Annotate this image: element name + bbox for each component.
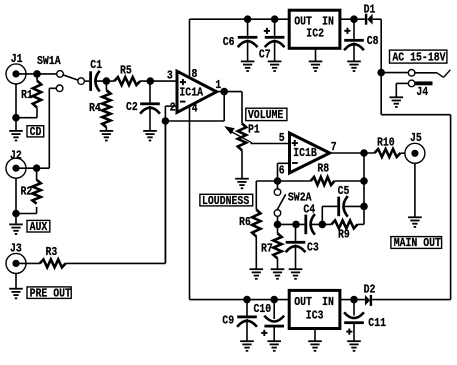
- wire pin2 stub and drop to pre-out: [165, 106, 177, 263]
- svg-text:MAIN OUT: MAIN OUT: [394, 237, 442, 250]
- label SW2A: [288, 192, 312, 205]
- regulator IC2: [289, 10, 340, 48]
- svg-text:AC 15-18V: AC 15-18V: [392, 52, 445, 65]
- label PRE OUT: [27, 287, 71, 301]
- svg-text:C3: C3: [307, 242, 319, 255]
- svg-text:R4: R4: [89, 102, 101, 115]
- pin 1 label: [215, 79, 221, 92]
- svg-text:R5: R5: [120, 65, 132, 78]
- label J4: [416, 86, 428, 99]
- connector J2: [6, 150, 26, 179]
- svg-text:D2: D2: [364, 284, 376, 297]
- wire to P1 top: [241, 92, 243, 124]
- label SW1A: [37, 55, 61, 68]
- wire C1 to R5: [97, 80, 115, 82]
- wire J2 to R2: [16, 167, 37, 169]
- wire to R6: [256, 181, 277, 210]
- switch SW2A bottom contact: [274, 210, 281, 217]
- resistor R4: [89, 81, 111, 127]
- svg-text:IN: IN: [322, 16, 334, 29]
- svg-text:LOUDNESS: LOUDNESS: [202, 195, 250, 208]
- ground under R6: [250, 237, 264, 279]
- resistor R7: [261, 224, 282, 258]
- svg-text:J4: J4: [416, 86, 428, 99]
- ground under R7: [271, 258, 285, 278]
- J4 switch lever: [415, 70, 451, 78]
- wire J1 to SW1A: [16, 73, 57, 75]
- resistor R10: [375, 137, 401, 157]
- wire IC1B pin6: [278, 163, 290, 181]
- svg-text:IC1B: IC1B: [293, 147, 317, 160]
- wire +rail: [190, 18, 290, 20]
- node C8 junction: [350, 15, 358, 23]
- svg-text:IC2: IC2: [306, 28, 324, 41]
- ground under P1: [235, 150, 249, 188]
- ground under C8: [347, 43, 361, 72]
- svg-text:8: 8: [192, 68, 198, 81]
- ground under J4: [390, 97, 404, 107]
- wire R5 to IC1A pin3: [140, 80, 177, 82]
- label AC 15-18V: [390, 50, 447, 65]
- capacitor C2: [126, 81, 160, 114]
- wire R10 to J5: [400, 152, 411, 154]
- switch SW1A throw 2: [56, 85, 63, 92]
- wire IC2 IN to D1: [340, 18, 365, 20]
- capacitor C9: [222, 300, 257, 328]
- ground under J2: [9, 214, 23, 235]
- node J1 ground junction: [12, 114, 20, 122]
- J4 switch contact: [408, 70, 415, 77]
- node IC1A output junction: [220, 88, 228, 96]
- switch SW1A lever: [63, 75, 78, 80]
- capacitor C8: [344, 19, 378, 50]
- svg-text:R3: R3: [46, 246, 58, 259]
- resistor R2: [16, 168, 41, 213]
- capacitor C1: [89, 59, 102, 91]
- wire R3 to pin2 node: [66, 121, 166, 263]
- ground under C2: [143, 106, 157, 141]
- svg-text:VOLUME: VOLUME: [248, 109, 284, 122]
- node J1/R1 junction: [33, 70, 41, 78]
- switch SW2A top contact: [274, 189, 281, 196]
- svg-text:SW1A: SW1A: [37, 55, 61, 68]
- ground under C6: [241, 40, 255, 72]
- svg-text:C2: C2: [126, 101, 138, 114]
- svg-text:CD: CD: [30, 126, 42, 139]
- label CD: [27, 126, 44, 139]
- svg-text:3: 3: [167, 70, 173, 83]
- capacitor C6: [223, 19, 258, 49]
- svg-text:R2: R2: [21, 186, 33, 199]
- svg-text:PRE OUT: PRE OUT: [30, 288, 72, 301]
- resistor R8: [278, 163, 365, 185]
- svg-text:AUX: AUX: [30, 221, 48, 234]
- svg-text:R6: R6: [239, 216, 251, 229]
- op-amp IC1B: [290, 133, 330, 173]
- svg-text:IC1A: IC1A: [179, 87, 203, 100]
- resistor R3: [40, 246, 66, 267]
- ground under C3: [289, 245, 303, 279]
- node C10 junction: [270, 296, 278, 304]
- wire SW2A to node: [277, 216, 279, 224]
- node C3 junction: [292, 221, 300, 229]
- diode D2: [364, 284, 376, 306]
- node J2 junction: [33, 164, 41, 172]
- ground under C7: [268, 40, 282, 72]
- svg-text:2: 2: [170, 102, 176, 115]
- wire to J4 switch contact: [381, 72, 408, 74]
- svg-text:C11: C11: [368, 317, 386, 330]
- ground under J3: [9, 273, 23, 298]
- svg-text:4: 4: [192, 103, 198, 116]
- svg-text:C9: C9: [222, 315, 234, 328]
- wire SW1A pole to C1: [84, 80, 89, 82]
- node output junction: [360, 149, 368, 157]
- node pin2 junction: [162, 117, 170, 125]
- svg-text:6: 6: [279, 165, 285, 178]
- switch SW1A pole: [78, 78, 85, 85]
- switch SW2A lever: [277, 194, 286, 210]
- P1 wiper arrow: [224, 126, 252, 143]
- svg-text:IC3: IC3: [306, 310, 324, 323]
- pin 5 label: [279, 132, 285, 145]
- diode D1: [364, 4, 376, 25]
- ground under J1: [9, 118, 23, 141]
- wire P1 wiper to IC1B pin5: [251, 143, 292, 145]
- ground under C11: [347, 324, 361, 351]
- capacitor C10: [254, 300, 285, 336]
- ground under IC2: [309, 48, 323, 71]
- wire IC1A pin8 to +rail: [189, 19, 191, 77]
- svg-text:R8: R8: [317, 163, 329, 176]
- capacitor C7: [259, 19, 285, 61]
- pin 6 label: [279, 165, 285, 178]
- pin 2 label: [170, 102, 176, 115]
- wire IC3 IN to D2: [340, 299, 365, 301]
- wire D2 to AC bus: [372, 299, 451, 301]
- wire D1 to J4 node: [373, 19, 382, 72]
- wire IC1A output: [217, 91, 242, 93]
- node R5/C2 junction: [147, 77, 155, 85]
- wire right feedback bus: [363, 153, 365, 224]
- svg-text:IN: IN: [322, 296, 334, 309]
- wire IC1B output: [330, 152, 375, 154]
- svg-text:C7: C7: [259, 49, 271, 62]
- capacitor C4: [303, 204, 315, 235]
- node feedback junction: [274, 177, 282, 185]
- switch SW1A throw 1: [57, 71, 64, 78]
- svg-text:C10: C10: [254, 303, 272, 316]
- potentiometer P1: [238, 123, 260, 150]
- ground under IC3: [308, 329, 322, 351]
- svg-text:C1: C1: [90, 59, 102, 72]
- node C4/C5 junction: [319, 221, 327, 229]
- wire AC to D2: [381, 73, 450, 300]
- wire C4 to R9: [312, 223, 332, 225]
- svg-text:OUT: OUT: [294, 296, 312, 309]
- wire IC1A pin4 to -rail: [189, 105, 191, 300]
- J4 tip pin: [415, 81, 433, 85]
- label LOUDNESS: [200, 194, 253, 208]
- wire to C5: [322, 206, 337, 224]
- label VOLUME: [246, 108, 287, 122]
- connector J1: [6, 53, 26, 84]
- node C11 junction: [350, 296, 358, 304]
- node loudness junction: [274, 221, 282, 229]
- ground under R4: [100, 127, 114, 140]
- wire to SW2A: [277, 181, 279, 189]
- wire -rail: [190, 299, 290, 301]
- pin 7 label: [331, 141, 337, 154]
- svg-text:C6: C6: [223, 36, 235, 49]
- node C7 junction: [271, 15, 279, 23]
- node C9 junction: [243, 296, 251, 304]
- resistor R1: [16, 74, 41, 118]
- wire to C3/C4: [278, 223, 305, 225]
- wire C5 to bus: [345, 205, 364, 207]
- capacitor C11: [344, 300, 386, 335]
- pin 4 label: [192, 103, 198, 116]
- regulator IC3: [289, 290, 340, 328]
- resistor R6: [239, 210, 261, 237]
- node C6 junction: [244, 15, 252, 23]
- svg-text:R7: R7: [261, 243, 273, 256]
- svg-text:C8: C8: [367, 35, 379, 48]
- op-amp IC1A: [177, 71, 217, 112]
- svg-text:5: 5: [279, 132, 285, 145]
- label MAIN OUT: [391, 237, 442, 251]
- capacitor C3: [286, 224, 320, 254]
- svg-text:P1: P1: [248, 124, 260, 137]
- wire J1 sleeve down: [15, 84, 17, 118]
- node J2 ground junction: [12, 210, 20, 218]
- wire J2 sleeve down: [15, 178, 17, 213]
- connector J3: [6, 243, 26, 274]
- wire J4 to ground: [396, 83, 408, 97]
- wire SW1A throw2 to J2: [37, 88, 57, 168]
- ground under C9: [240, 319, 254, 351]
- J4 tip contact: [408, 80, 415, 87]
- connector J5: [405, 132, 425, 163]
- pin 8 label: [192, 68, 198, 81]
- resistor R9: [331, 220, 364, 241]
- resistor R5: [114, 65, 140, 86]
- node AC input junction: [377, 69, 385, 77]
- pin 3 label: [167, 70, 173, 83]
- node C5 junction: [360, 203, 368, 211]
- label AUX: [27, 220, 50, 234]
- wire feedback to pin2: [165, 92, 224, 121]
- ground under J5: [408, 163, 422, 227]
- capacitor C5: [337, 185, 349, 216]
- svg-text:R9: R9: [338, 229, 350, 242]
- node C1/R4 junction: [103, 77, 111, 85]
- svg-text:OUT: OUT: [294, 16, 312, 29]
- node R8 junction: [360, 177, 368, 185]
- ground under C10: [267, 328, 281, 351]
- wire J3 to R3: [16, 262, 40, 264]
